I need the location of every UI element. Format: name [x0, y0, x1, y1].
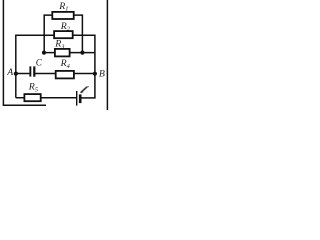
junction dot R3 right: [80, 51, 84, 55]
wire R1 branch: [44, 14, 82, 16]
node B junction dot: [93, 72, 97, 76]
svg-text:A: A: [6, 67, 14, 78]
wire bottom left: [3, 104, 46, 106]
battery long plate: [76, 91, 77, 106]
wire node B vertical: [94, 35, 96, 98]
wire R2 branch: [16, 34, 95, 36]
resistor R2: [54, 31, 73, 38]
resistor R5: [24, 94, 40, 101]
wire bottom branch left: [16, 97, 76, 99]
wire R3 branch: [45, 52, 95, 54]
wire left rail: [2, 0, 4, 105]
capacitor C plate left: [29, 66, 31, 76]
resistor R4: [56, 71, 74, 79]
svg-text:R3: R3: [54, 39, 64, 51]
svg-text:R4: R4: [60, 58, 71, 70]
junction dot R3 left: [42, 51, 46, 55]
wire right rail: [106, 0, 108, 110]
resistor R3: [55, 49, 70, 57]
battery short plate: [79, 94, 82, 103]
wire left trunk vertical: [15, 35, 17, 98]
svg-text:R2: R2: [60, 21, 71, 33]
wire R1 left drop: [43, 14, 45, 52]
capacitor C plate right: [33, 66, 35, 76]
svg-text:R1: R1: [58, 1, 68, 13]
wire R1 right drop: [81, 14, 83, 52]
label battery EMF: [81, 87, 87, 92]
svg-text:C: C: [36, 58, 43, 68]
svg-text:B: B: [99, 69, 105, 80]
wire bottom branch right: [81, 97, 96, 99]
resistor R1: [52, 12, 73, 19]
svg-text:R5: R5: [28, 82, 38, 94]
wire trunk A side: [16, 73, 30, 75]
node A junction dot: [14, 72, 18, 76]
wire trunk B side: [35, 73, 95, 75]
